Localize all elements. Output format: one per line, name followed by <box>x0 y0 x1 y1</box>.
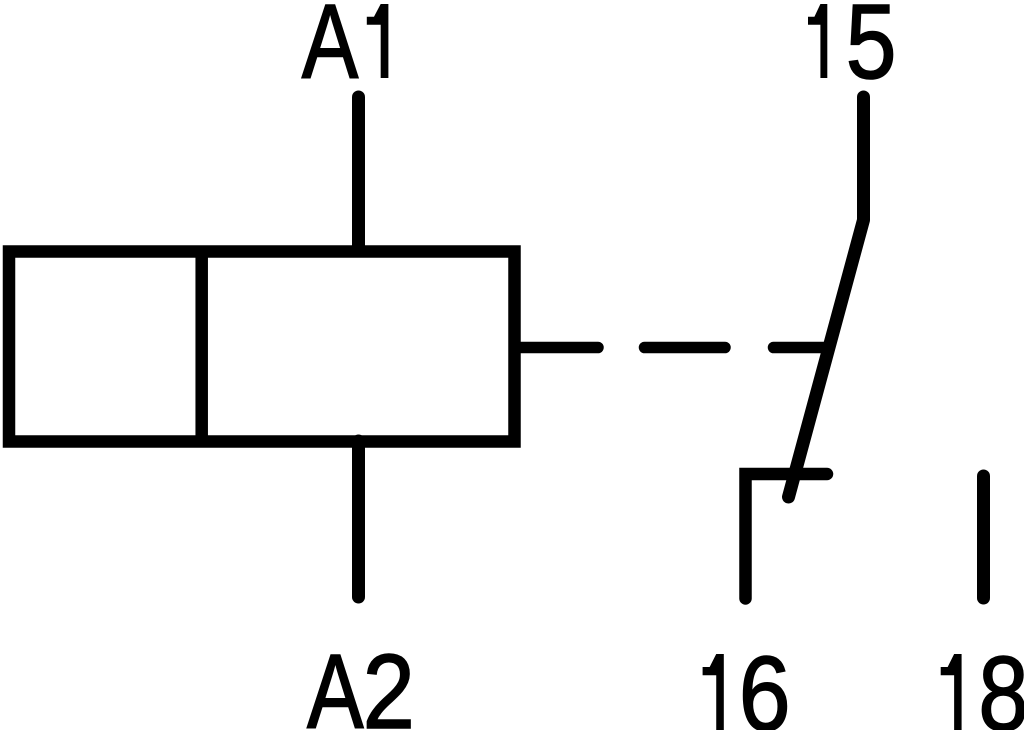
label 15: digit 1 <box>808 4 827 78</box>
svg-text:2: 2 <box>363 633 415 730</box>
svg-text:A: A <box>307 633 364 730</box>
label A1: digit 1 <box>367 4 389 78</box>
coil K1 (relay coil rectangle) <box>9 252 515 442</box>
label 18: digit 1 <box>941 654 962 730</box>
svg-text:8: 8 <box>978 634 1024 730</box>
wire dashed actuation link segment 3 <box>774 342 827 354</box>
svg-text:5: 5 <box>846 0 897 101</box>
svg-text:6: 6 <box>739 636 791 730</box>
wire dashed actuation link segment 1 <box>515 342 598 354</box>
coil divider line <box>195 252 208 442</box>
label 16: digit 1 <box>703 654 724 730</box>
wire A1 lead <box>352 97 365 251</box>
wire terminal 16 lead (angle bracket) <box>746 474 828 599</box>
wire terminal 18 lead <box>977 476 990 598</box>
svg-text:A: A <box>302 0 359 101</box>
wire dashed actuation link segment 2 <box>645 342 726 354</box>
wire A2 lead <box>352 441 365 597</box>
wire terminal 15 lead and moving contact arm <box>789 97 864 497</box>
